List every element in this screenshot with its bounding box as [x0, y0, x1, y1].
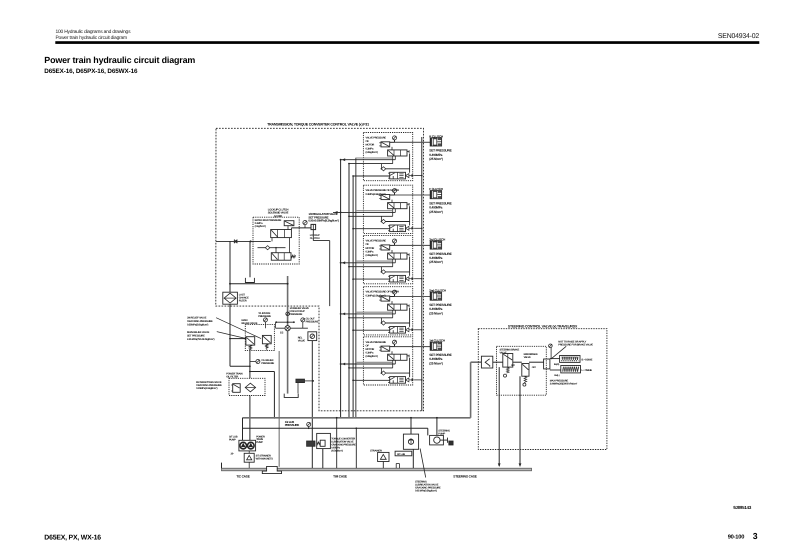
drain link 1st CLUTCH	[414, 379, 422, 381]
bridge line lower	[276, 327, 308, 329]
supply stub 1st CLUTCH	[353, 379, 390, 381]
filter outlet line	[229, 304, 231, 366]
svg-text:PRESSURE FOR BRAKE VALVE: PRESSURE FOR BRAKE VALVE	[558, 344, 593, 347]
pressure pickup R CLUTCH	[393, 136, 397, 140]
svg-text:(25 N/cm²): (25 N/cm²)	[429, 260, 443, 264]
modulating reducing valve R CLUTCH	[390, 172, 406, 179]
svg-text:MOTOR: MOTOR	[366, 348, 375, 351]
gauge stem F CLUTCH	[394, 193, 396, 195]
lockup internal riser	[289, 238, 291, 253]
svg-text:PUMP: PUMP	[256, 441, 263, 444]
solenoid valve R CLUTCH	[381, 142, 390, 147]
oil level plug box	[296, 379, 305, 383]
check orifice line 1st CLUTCH	[382, 372, 410, 374]
steering drain lines	[498, 367, 500, 466]
check orifice line 3rd CLUTCH	[382, 271, 410, 273]
pilot stub lines 2nd CLUTCH	[356, 311, 392, 313]
drain link F CLUTCH	[414, 227, 422, 229]
svg-text:S/T LUB: S/T LUB	[397, 453, 405, 456]
svg-text:STEERING CASE: STEERING CASE	[453, 474, 477, 478]
clutch symbol 2nd CLUTCH	[430, 292, 441, 300]
steering brake spool	[503, 354, 513, 368]
check orifice diamond 3rd CLUTCH	[381, 270, 385, 274]
solenoid valve F CLUTCH	[381, 195, 390, 200]
clutch control valve group 1st CLUTCH	[340, 337, 452, 385]
steering pump	[430, 417, 453, 445]
lubrication return line	[278, 351, 280, 467]
check orifice line R CLUTCH	[382, 168, 410, 170]
right riser R CLUTCH	[409, 154, 411, 173]
svg-text:D65EX-16, D65PX-16, D65WX-16: D65EX-16, D65PX-16, D65WX-16	[44, 68, 138, 75]
pressure pickup F CLUTCH	[393, 189, 397, 193]
tm lub valve feed	[410, 418, 412, 434]
clutch output line F CLUTCH	[395, 194, 431, 196]
svg-text:(25 N/cm²): (25 N/cm²)	[429, 361, 443, 365]
pump to bus riser	[436, 418, 438, 436]
svg-text:(3.5kgf/cm²): (3.5kgf/cm²)	[366, 254, 378, 257]
line lockup symbol to regulator drop	[312, 230, 314, 241]
svg-text:0.05 MPa(0.5kgf/cm²): 0.05 MPa(0.5kgf/cm²)	[415, 490, 437, 493]
clutch symbol R CLUTCH	[430, 138, 441, 146]
lockup drain to tank	[249, 241, 251, 277]
modulating reducing valve 2nd CLUTCH	[390, 327, 406, 334]
lockup reducing valve	[271, 253, 291, 261]
filter to pump line	[249, 396, 251, 441]
proportional spool valve 3rd CLUTCH	[388, 253, 407, 259]
inlet check valve	[481, 356, 492, 368]
gauge stem 3rd CLUTCH	[394, 243, 396, 245]
pump group	[229, 435, 273, 468]
elbow to filter feed	[230, 365, 250, 367]
svg-text:PRESSURE: PRESSURE	[258, 315, 271, 318]
svg-text:VALVE PRESSURE: VALVE PRESSURE	[366, 137, 387, 140]
svg-text:OFF: OFF	[532, 366, 537, 369]
check orifice line F CLUTCH	[382, 221, 410, 223]
header rule	[55, 41, 759, 44]
solenoid valve 3rd CLUTCH	[381, 245, 390, 250]
svg-text:(25 N/cm²): (25 N/cm²)	[429, 157, 443, 161]
dashed box 3rd CLUTCH valve	[363, 236, 412, 284]
drain arrow 2nd CLUTCH	[406, 328, 409, 332]
modulating reducing valve 1st CLUTCH	[390, 377, 406, 384]
svg-text:STEERING CONTROL VALVE (x) TRA: STEERING CONTROL VALVE (x) TRAVEL/RDX	[508, 325, 578, 329]
relief valve 1	[246, 337, 255, 345]
rel valve drain line	[311, 341, 313, 469]
torque converter lubrication valve	[317, 433, 357, 468]
strainer drop lines	[355, 428, 357, 468]
svg-text:3rd CLUTCH: 3rd CLUTCH	[429, 238, 445, 242]
solenoid valve 2nd CLUTCH	[381, 296, 390, 301]
1/2 pressure gauge circle	[285, 326, 290, 331]
bypass valve	[233, 384, 241, 393]
t/c lub label box	[307, 441, 315, 446]
power train pump	[248, 442, 255, 449]
filter element	[245, 383, 255, 392]
case drop line	[336, 418, 338, 468]
lube bus drop to steering pump	[427, 428, 429, 435]
clutch symbol F CLUTCH	[430, 191, 441, 199]
svg-text:VALVE PRESSURE: VALVE PRESSURE	[366, 341, 387, 344]
solenoid valve lockup	[284, 221, 294, 226]
gauge steering	[549, 344, 553, 348]
pressure pickup 1st CLUTCH	[393, 340, 397, 344]
supply stub F CLUTCH	[353, 228, 390, 230]
svg-text:PRESSURE: PRESSURE	[285, 423, 300, 427]
svg-text:MOTOR: MOTOR	[366, 247, 375, 250]
gauge 1/2 lub	[307, 422, 311, 426]
1/2 bridge cluster	[258, 307, 319, 334]
solenoid coil L	[561, 366, 581, 373]
svg-text:TRANSMISSION, TORQUE CONVERTER: TRANSMISSION, TORQUE CONVERTER CONTROL V…	[267, 122, 369, 126]
main pressure line vertical	[287, 276, 289, 394]
suction strainer valve	[244, 453, 254, 462]
power train oil filter	[196, 351, 265, 440]
right riser 1st CLUTCH	[409, 358, 411, 377]
line to coils	[550, 358, 560, 360]
coupler	[449, 441, 453, 445]
supply stub 3rd CLUTCH	[353, 278, 390, 280]
pilot stub lines F CLUTCH	[356, 210, 392, 212]
lockup clutch symbol	[311, 224, 316, 229]
clutch output line R CLUTCH	[395, 141, 431, 143]
svg-text:OFF: OFF	[511, 364, 516, 367]
svg-text:Bx(L): Bx(L)	[554, 374, 559, 377]
oil box drain	[297, 383, 299, 394]
bus line 1	[340, 160, 342, 418]
clutch output line 1st CLUTCH	[395, 346, 431, 348]
dashed box lockup valve	[253, 217, 299, 264]
svg-text:VALVE: VALVE	[524, 356, 531, 359]
bus line 4 supply	[355, 158, 357, 418]
svg-text:WITH MAGNETS: WITH MAGNETS	[256, 458, 274, 461]
bus line 2	[348, 164, 350, 418]
filter inlet elbow line	[250, 371, 275, 373]
solenoid to gauge link F CLUTCH	[390, 194, 395, 196]
bus drop to pump	[242, 418, 244, 441]
supply stub R CLUTCH	[353, 175, 390, 177]
s/t lub label box	[395, 451, 412, 456]
svg-text:30-: 30-	[231, 453, 234, 456]
proportional spool valve 1st CLUTCH	[388, 354, 407, 360]
tc return line	[230, 283, 288, 285]
proportional spool valve R CLUTCH	[388, 150, 407, 156]
solenoid to gauge link 1st CLUTCH	[390, 346, 395, 348]
drain arrow 1st CLUTCH	[406, 378, 409, 382]
svg-text:90-100: 90-100	[728, 534, 745, 540]
svg-text:9J895143: 9J895143	[733, 505, 752, 510]
supply stub 2nd CLUTCH	[353, 329, 390, 331]
solenoid coil B	[560, 356, 580, 363]
main brake spool	[522, 364, 529, 377]
drain arrow R CLUTCH	[406, 174, 409, 178]
s/t lub pump	[240, 442, 247, 449]
lockup output line	[291, 227, 311, 229]
leader to note	[551, 346, 566, 359]
spool valve lockup	[271, 230, 292, 238]
gauge on main line	[286, 312, 290, 316]
relief valve for lockup	[308, 332, 317, 341]
dashed box 2nd CLUTCH valve	[363, 287, 412, 335]
inner dashed box	[497, 346, 547, 395]
gauge stem lockup	[304, 225, 306, 228]
svg-text:3: 3	[753, 531, 758, 541]
check orifice diamond 1st CLUTCH	[381, 371, 385, 375]
svg-text:PRESSURE: PRESSURE	[290, 313, 303, 316]
drain link R CLUTCH	[414, 175, 422, 177]
pilot stub lines 1st CLUTCH	[356, 361, 392, 363]
svg-text:2.45 MPa(750-25.0kgf/cm²): 2.45 MPa(750-25.0kgf/cm²)	[187, 338, 215, 341]
check orifice diamond R CLUTCH	[381, 167, 385, 171]
steering lubrication valve leader	[420, 449, 426, 478]
svg-text:D65EX, PX, WX-16: D65EX, PX, WX-16	[44, 534, 101, 541]
proportional spool valve 2nd CLUTCH	[388, 304, 407, 310]
pilot connector box	[544, 359, 550, 369]
case line left tick	[221, 463, 223, 469]
transmission control valve enclosure boundary	[216, 128, 424, 411]
feed to relief valves	[230, 338, 246, 340]
clutch symbol 1st CLUTCH	[430, 342, 441, 350]
clutch control valve group F CLUTCH	[333, 185, 452, 233]
lubrication bus	[243, 427, 428, 429]
drain arrow 3rd CLUTCH	[406, 277, 409, 281]
junction lockup feed	[250, 240, 252, 242]
clutch output line 3rd CLUTCH	[395, 244, 431, 246]
main relief valve block	[230, 319, 274, 351]
svg-text:OF: OF	[366, 140, 370, 143]
dashed box 1st CLUTCH valve	[363, 337, 412, 385]
svg-text:B • OS64E: B • OS64E	[582, 358, 593, 361]
svg-text:L • OS64E: L • OS64E	[582, 369, 593, 372]
svg-text:SEN04934-02: SEN04934-02	[718, 33, 759, 40]
dashed box R CLUTCH valve	[363, 133, 412, 181]
svg-text:OF: OF	[366, 344, 370, 347]
svg-text:(25 N/cm²): (25 N/cm²)	[429, 311, 443, 315]
svg-text:VALVE: VALVE	[298, 340, 306, 343]
gauge stem 2nd CLUTCH	[394, 294, 396, 296]
gauge t/l intake	[263, 318, 267, 322]
svg-text:Bx(R): Bx(R)	[554, 363, 560, 366]
modulating reducing valve 3rd CLUTCH	[390, 275, 406, 282]
svg-text:Power train hydraulic circuit: Power train hydraulic circuit diagram	[44, 55, 195, 65]
svg-text:MOTOR: MOTOR	[366, 144, 375, 147]
svg-text:(3.5kgf/cm²): (3.5kgf/cm²)	[366, 355, 378, 358]
gauge stem R CLUTCH	[394, 140, 396, 142]
clutch control valve group R CLUTCH	[340, 133, 452, 181]
dashed box steering control valve	[478, 329, 607, 450]
lockup check line	[258, 247, 286, 249]
bridge line upper	[276, 321, 294, 323]
svg-text:0.55MPa(5.6kgf/cm²): 0.55MPa(5.6kgf/cm²)	[187, 323, 208, 326]
right riser 2nd CLUTCH	[409, 308, 411, 327]
dashed box relief valves	[245, 325, 274, 351]
main supply bus	[243, 417, 471, 419]
case top line	[222, 468, 532, 471]
clutch control valve group 2nd CLUTCH	[340, 287, 452, 335]
strainer drop	[248, 462, 250, 468]
svg-text:T/M CASE: T/M CASE	[333, 474, 347, 478]
drain arrow F CLUTCH	[406, 226, 409, 230]
clutch symbol 3rd CLUTCH	[430, 241, 441, 249]
lube valve drop	[322, 449, 324, 469]
relief valve 2	[262, 335, 271, 343]
right riser 3rd CLUTCH	[409, 257, 411, 276]
dashed box F CLUTCH valve	[363, 185, 412, 233]
svg-text:0.3MPa: 0.3MPa	[366, 250, 374, 253]
svg-text:RELIEF VALVE: RELIEF VALVE	[242, 322, 258, 325]
svg-text:1/2: 1/2	[280, 332, 284, 335]
gauge c/l out	[301, 318, 305, 322]
svg-text:(3.5kgf/cm²): (3.5kgf/cm²)	[366, 151, 378, 154]
pressure pickup 3rd CLUTCH	[393, 239, 397, 243]
leader line 3/4 relief	[216, 318, 261, 339]
svg-text:PRESSURE: PRESSURE	[306, 321, 319, 324]
solenoid valve 1st CLUTCH	[381, 346, 390, 351]
clutch control valve group 3rd CLUTCH	[340, 236, 452, 284]
steering supply line	[470, 362, 472, 418]
solenoid to gauge link R CLUTCH	[390, 141, 395, 143]
modulating reducing valve F CLUTCH	[390, 225, 406, 232]
pilot stub lines 3rd CLUTCH	[356, 260, 392, 262]
drain bus line	[421, 137, 423, 411]
svg-text:2.94MPa(30)/3000 kPa/cm²: 2.94MPa(30)/3000 kPa/cm²	[550, 382, 578, 385]
case break ticks	[395, 464, 397, 469]
solenoid to gauge link 3rd CLUTCH	[390, 244, 395, 246]
pressure pickup lockup	[303, 221, 307, 225]
pilot stub lines R CLUTCH	[356, 157, 392, 159]
svg-text:T/C CASE: T/C CASE	[236, 474, 249, 478]
svg-text:(25 N/cm²): (25 N/cm²)	[429, 210, 443, 214]
pump housing	[239, 440, 256, 451]
svg-text:(3 kgf/cm²): (3 kgf/cm²)	[255, 225, 266, 228]
tank symbol lower	[284, 394, 298, 398]
t/m lub valve	[403, 417, 418, 468]
svg-text:F CLUTCH: F CLUTCH	[429, 187, 442, 191]
gauge stem 1st CLUTCH	[394, 344, 396, 346]
solenoid to gauge link 2nd CLUTCH	[390, 296, 395, 298]
svg-text:Power train hydraulic circuit: Power train hydraulic circuit diagram	[56, 35, 128, 41]
svg-text:0.3MPa: 0.3MPa	[366, 352, 374, 355]
t/c strainer basket	[262, 466, 281, 473]
c/l relief gauge	[256, 360, 260, 364]
svg-text:CLUTCH: CLUTCH	[310, 237, 320, 240]
lockup feed line with plug	[216, 240, 271, 242]
filter feed line	[249, 351, 251, 378]
pressure pickup 2nd CLUTCH	[393, 290, 397, 294]
tm lub valve drop	[412, 449, 414, 468]
tank symbol upper	[245, 278, 254, 283]
svg-text:100 Hydraulic diagrams and dra: 100 Hydraulic diagrams and drawings	[56, 29, 132, 35]
svg-text:0.15MPa(1.5kgf/cm²): 0.15MPa(1.5kgf/cm²)	[196, 387, 217, 390]
svg-text:VALVE PRESSURE: VALVE PRESSURE	[366, 240, 387, 243]
leader line main relief	[217, 332, 247, 339]
main line through valves	[493, 361, 503, 363]
svg-text:FILTER: FILTER	[239, 299, 247, 302]
check orifice diamond F CLUTCH	[381, 219, 385, 223]
steering control valve group	[478, 325, 607, 467]
right riser F CLUTCH	[409, 206, 411, 225]
svg-text:PRESSURE: PRESSURE	[261, 362, 274, 365]
check orifice diamond 2nd CLUTCH	[381, 321, 385, 325]
left riser line	[229, 241, 231, 283]
svg-text:(0.5kgf/cm²): (0.5kgf/cm²)	[331, 449, 343, 452]
check orifice line 2nd CLUTCH	[382, 322, 410, 324]
svg-text:0.90±0.05MPa(9.2kgf/cm²): 0.90±0.05MPa(9.2kgf/cm²)	[308, 218, 338, 222]
last chance filter	[223, 292, 238, 304]
clutch output line 2nd CLUTCH	[395, 296, 431, 298]
drain link 3rd CLUTCH	[414, 278, 422, 280]
svg-text:PUMP: PUMP	[229, 439, 236, 442]
svg-text:R CLUTCH: R CLUTCH	[429, 134, 443, 138]
bus line 3	[352, 176, 354, 418]
svg-text:0.3MPa: 0.3MPa	[366, 147, 374, 150]
lockup clutch solenoid valve group	[216, 208, 339, 306]
drain link 2nd CLUTCH	[414, 329, 422, 331]
svg-text:1st CLUTCH: 1st CLUTCH	[429, 339, 445, 343]
svg-text:OF: OF	[366, 243, 370, 246]
proportional spool valve F CLUTCH	[388, 203, 407, 209]
svg-text:2nd CLUTCH: 2nd CLUTCH	[429, 289, 446, 293]
